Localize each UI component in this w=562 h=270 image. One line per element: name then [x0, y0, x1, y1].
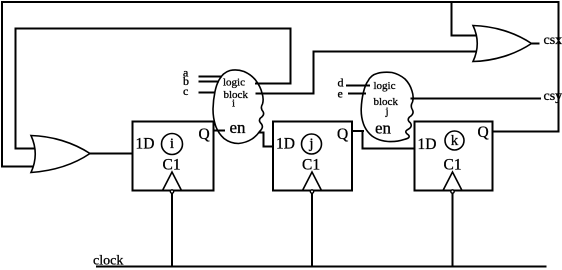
- wire branch from top loop down to csx OR gate top input: [452, 2, 478, 36]
- wire Q of FF j to logic block j and down to 1D of FF k: [352, 131, 415, 149]
- wire G1 output to 1D input of flip-flop i: [90, 153, 133, 155]
- wire input b: [199, 81, 220, 83]
- svg-text:j: j: [308, 136, 313, 152]
- wire logic block j output to csy: [411, 98, 542, 100]
- wire from logic block i lower output to csx OR gate bottom input: [256, 52, 477, 94]
- flip-flop j box: [273, 122, 352, 191]
- svg-text:csx: csx: [544, 33, 562, 48]
- svg-text:1D: 1D: [136, 136, 155, 153]
- wire input d: [346, 85, 370, 87]
- wire Q of FF i to logic block i en input: [214, 130, 226, 132]
- clock bubble (FF k): [451, 190, 454, 193]
- svg-text:k: k: [451, 133, 459, 149]
- svg-text:logic: logic: [374, 80, 396, 92]
- wire G2 output stub: [532, 43, 540, 45]
- wire clock to FF k: [452, 194, 454, 267]
- wire input c: [199, 92, 216, 94]
- clock triangle (FF k): [443, 172, 462, 191]
- or-gate G2 (csx output OR): [473, 26, 532, 62]
- svg-text:i: i: [232, 98, 235, 110]
- svg-text:C1: C1: [302, 157, 320, 174]
- svg-text:Q: Q: [199, 126, 210, 143]
- wire clock to FF i: [171, 194, 173, 267]
- svg-text:en: en: [230, 118, 247, 137]
- wire input e: [348, 93, 366, 95]
- wire feedback net from Q of FF k: top border loop to OR gates: [2, 2, 559, 167]
- svg-text:1D: 1D: [276, 136, 295, 153]
- svg-text:Q: Q: [337, 126, 348, 143]
- clock bubble (FF j): [310, 190, 313, 193]
- clock triangle (FF i): [163, 172, 182, 191]
- flip-flop k box: [415, 122, 493, 191]
- circled letter i (FF i): [162, 134, 183, 155]
- circled letter k (FF k): [445, 131, 464, 150]
- flip-flop i box: [133, 122, 214, 191]
- or-gate G1 (left feedback OR): [31, 136, 90, 173]
- svg-text:e: e: [338, 87, 343, 101]
- logic block j cloud outline: [361, 72, 413, 141]
- wire logic block i output to 1D of flip-flop j: [259, 133, 273, 147]
- svg-text:c: c: [183, 84, 188, 98]
- circled letter j (FF j): [302, 134, 322, 154]
- logic block i cloud outline: [213, 70, 264, 144]
- wire clock to FF j: [311, 194, 313, 267]
- svg-text:logic: logic: [223, 77, 245, 89]
- svg-text:en: en: [375, 119, 392, 138]
- clock bubble (FF i): [170, 190, 173, 193]
- svg-text:C1: C1: [163, 157, 181, 174]
- wire inner feedback net from logic block i output to left OR gate top input: [16, 29, 291, 149]
- wire clock line: [96, 266, 547, 268]
- wire input a: [199, 76, 223, 78]
- svg-text:block: block: [224, 89, 249, 101]
- svg-text:j: j: [385, 106, 389, 118]
- svg-text:Q: Q: [478, 124, 489, 141]
- svg-text:i: i: [170, 136, 174, 152]
- clock triangle (FF j): [303, 172, 322, 191]
- svg-text:csy: csy: [544, 89, 562, 104]
- svg-text:1D: 1D: [418, 136, 437, 153]
